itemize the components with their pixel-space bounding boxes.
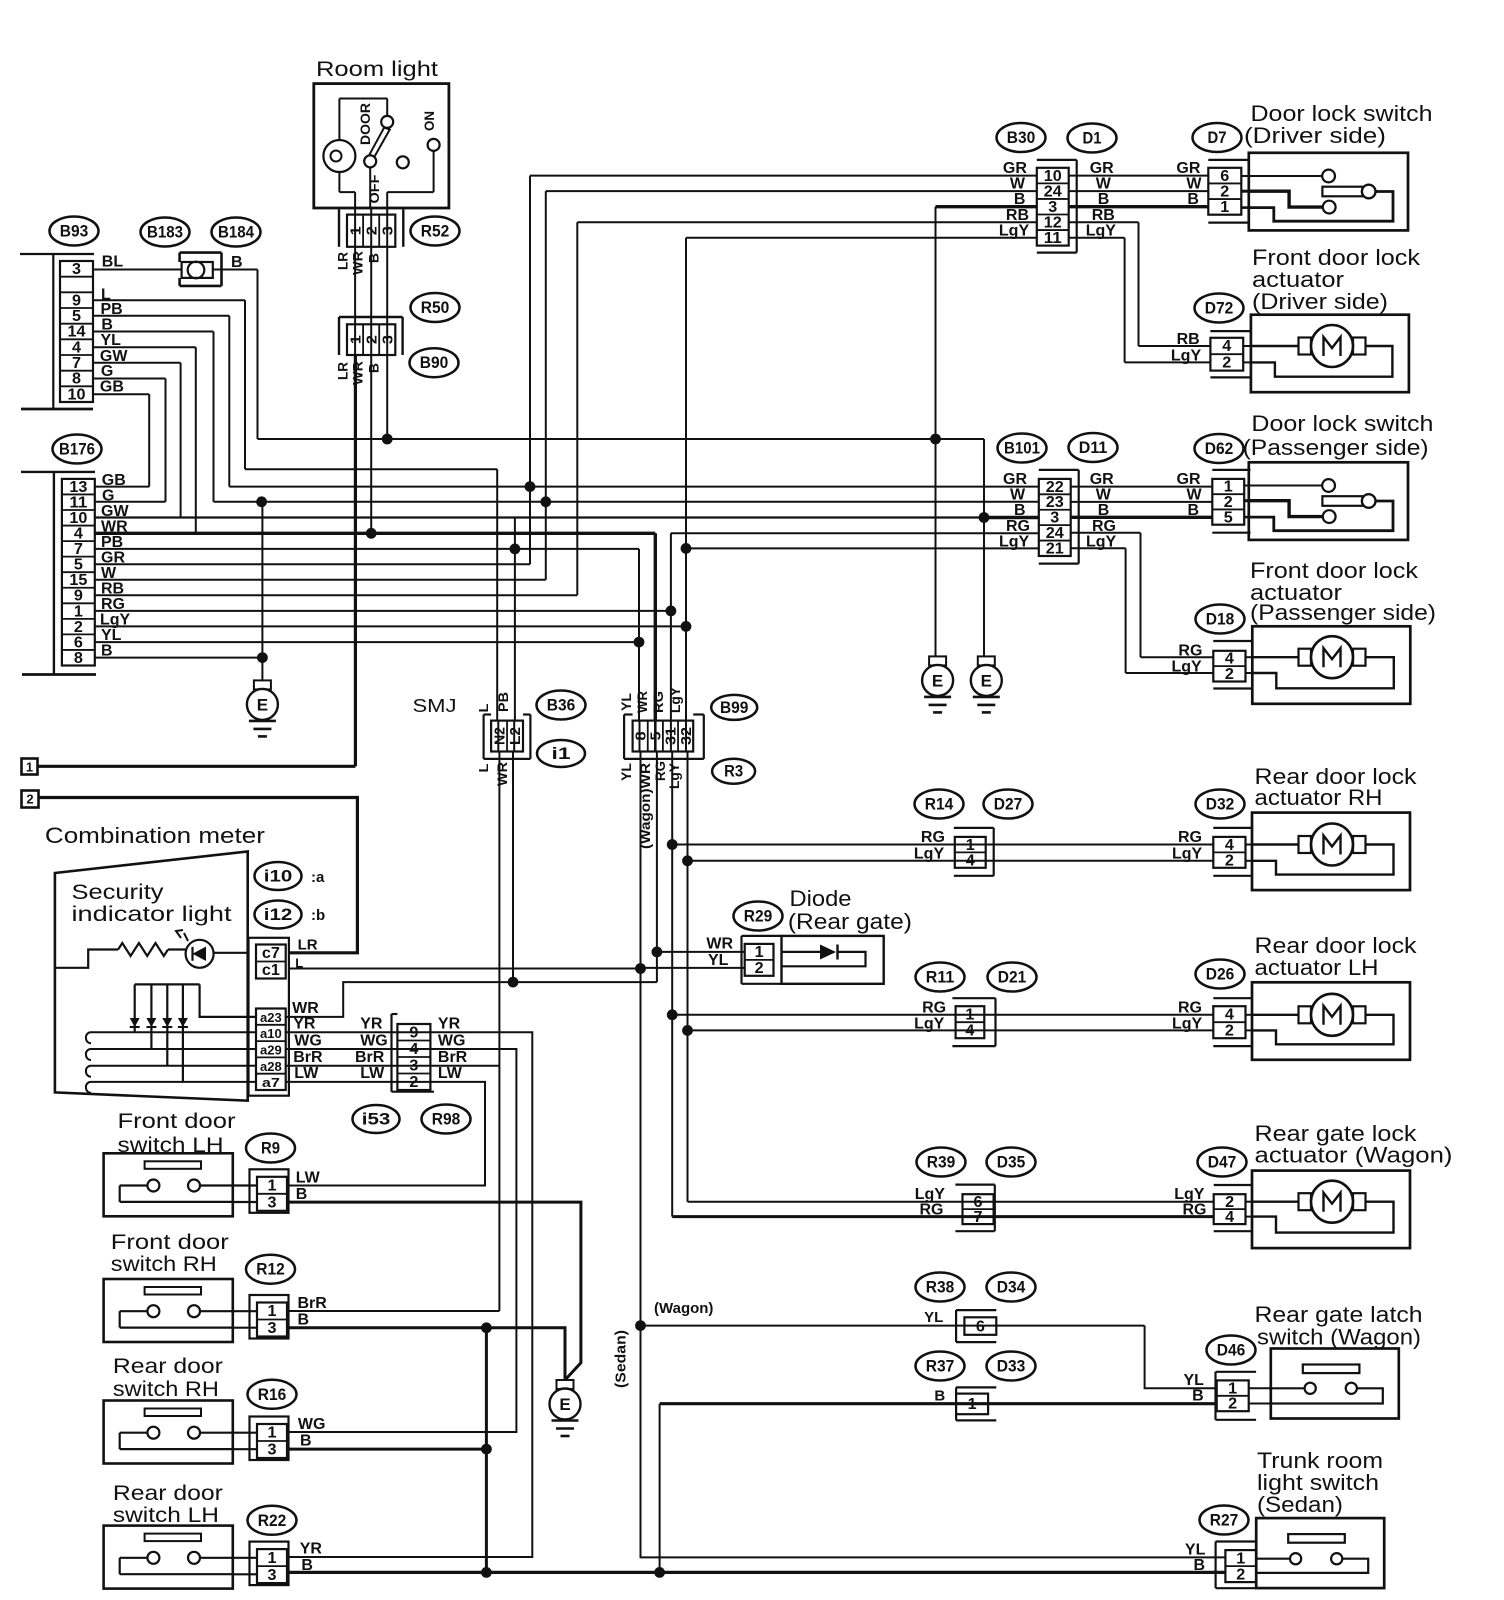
- connector block D7: [1208, 168, 1241, 216]
- svg-text:LW: LW: [438, 1065, 463, 1082]
- svg-text:2: 2: [755, 960, 764, 977]
- svg-text:D46: D46: [1217, 1342, 1246, 1360]
- wire D72 to actuator: [1243, 345, 1251, 347]
- svg-text:R14: R14: [925, 796, 954, 814]
- svg-text:2: 2: [1236, 1566, 1245, 1583]
- connector D26 housing: [1213, 998, 1252, 1046]
- connector R50 housing: [339, 317, 403, 355]
- connector block R14/D27: [955, 837, 986, 869]
- wire B row thick to B101: [984, 516, 1039, 519]
- connector block B30/D1: [1037, 168, 1069, 247]
- svg-text:R38: R38: [926, 1279, 955, 1297]
- connector R11/D21 housing: [952, 998, 995, 1046]
- wire labels RG LgY at R11: [914, 999, 946, 1032]
- wire D18 to actuator: [1246, 656, 1253, 658]
- svg-text:R12: R12: [256, 1261, 285, 1279]
- svg-text:LgY: LgY: [667, 686, 683, 713]
- svg-text:R3: R3: [724, 763, 743, 781]
- svg-text:E: E: [981, 671, 992, 690]
- wire BrR from i53 to riser: [430, 1065, 499, 1067]
- wire D11 to D62 GR: [1071, 486, 1213, 488]
- connector block R12 pins: [257, 1303, 287, 1338]
- connector label oval R14: [915, 790, 964, 819]
- svg-text:D18: D18: [1206, 611, 1235, 629]
- wire from box 1 to LR riser: [38, 765, 356, 768]
- svg-text:GR: GR: [1177, 471, 1201, 488]
- wire labels LgY RG at D47: [1174, 1186, 1206, 1218]
- svg-text:4: 4: [1225, 1006, 1234, 1023]
- connector R38/D34 housing: [956, 1310, 996, 1342]
- svg-text:YR: YR: [293, 1016, 316, 1033]
- connector label oval D46: [1207, 1336, 1256, 1365]
- wire riser x257.5 B: [257, 270, 259, 440]
- wire W row y579.8: [95, 579, 546, 581]
- wire B down to B row: [386, 355, 388, 439]
- text Rear door switch LH: [113, 1482, 223, 1527]
- wire labels below B99: [618, 761, 682, 849]
- wire RG row B101 y533.3: [671, 532, 1039, 534]
- svg-text:1: 1: [268, 1550, 277, 1567]
- svg-text:RG: RG: [1006, 518, 1030, 535]
- svg-text:L: L: [476, 703, 491, 712]
- svg-text:9: 9: [72, 292, 81, 309]
- wire B93 pin 4 YL: [93, 346, 196, 348]
- svg-text:G: G: [101, 363, 113, 380]
- junction dot YL riser: [634, 637, 645, 648]
- svg-text:D7: D7: [1208, 129, 1227, 147]
- text Front door lock actuator driver: [1252, 245, 1421, 314]
- connector label oval D35: [987, 1148, 1036, 1177]
- connector block D32: [1213, 837, 1245, 869]
- svg-text:OFF: OFF: [366, 174, 382, 203]
- connector label oval R11: [916, 963, 965, 992]
- wire LW from i53 to R9: [287, 1082, 485, 1186]
- svg-text:RG: RG: [1178, 829, 1202, 846]
- svg-text:R22: R22: [258, 1512, 287, 1530]
- connector R39/D35 housing: [955, 1185, 994, 1232]
- svg-text:R52: R52: [421, 223, 450, 241]
- connector block c7c1: [256, 945, 286, 980]
- wire PB row y548.9: [95, 548, 639, 550]
- wire B93 pin 5 PB: [93, 315, 229, 317]
- wire R52 to R50: [355, 247, 387, 324]
- svg-text:D26: D26: [1206, 966, 1235, 984]
- wire R9 B to E ground: [287, 1202, 581, 1380]
- wire labels BrR B at R12: [298, 1295, 328, 1329]
- wire riser x213.5: [213, 332, 215, 502]
- svg-text:R37: R37: [926, 1358, 955, 1376]
- wire B row R37 to D46 thick: [660, 1402, 1217, 1405]
- wire LgY into D18: [1126, 672, 1214, 674]
- svg-text:YR: YR: [300, 1541, 323, 1558]
- junction dot B row x387: [382, 434, 393, 445]
- svg-text:7: 7: [74, 541, 83, 558]
- connector D18 housing: [1213, 641, 1252, 689]
- svg-text:1: 1: [26, 760, 33, 775]
- svg-text:YL: YL: [618, 763, 634, 781]
- component B183/B184 joint: [180, 253, 222, 286]
- svg-text:B184: B184: [218, 224, 255, 242]
- wire labels LW B at R9: [296, 1170, 321, 1204]
- svg-text:Front door: Front door: [118, 1110, 236, 1133]
- connector block R38/D34: [964, 1317, 996, 1335]
- svg-text:(Sedan): (Sedan): [613, 1330, 630, 1388]
- wire through R50 cells: [355, 324, 387, 355]
- svg-text:LW: LW: [360, 1065, 385, 1082]
- svg-text:i12: i12: [264, 906, 293, 924]
- svg-text:BL: BL: [102, 254, 124, 271]
- wire LgY row R14 to D32: [688, 860, 1214, 862]
- svg-text:5: 5: [72, 308, 81, 325]
- connector block R9 pins: [257, 1177, 287, 1212]
- svg-text:3: 3: [1048, 199, 1057, 216]
- junction dot SMJ riser on PB row: [510, 544, 521, 555]
- svg-text:B99: B99: [720, 699, 749, 717]
- wire a29 WG to i53: [286, 1048, 398, 1050]
- wire riser x165.5: [165, 379, 167, 502]
- wire LR down to junction 1: [354, 355, 357, 766]
- svg-text:D32: D32: [1206, 796, 1235, 814]
- svg-text:E: E: [559, 1395, 570, 1414]
- wire labels WR YL at R29: [706, 936, 733, 969]
- connector D47 housing: [1214, 1185, 1252, 1231]
- svg-text:YL: YL: [924, 1309, 943, 1326]
- junction dot B run x935.5: [930, 434, 941, 445]
- wire R16 B row: [287, 1448, 486, 1451]
- switch detail box rear gate latch switch: [1271, 1349, 1399, 1419]
- svg-text:R27: R27: [1210, 1512, 1239, 1530]
- svg-text:E: E: [257, 695, 268, 714]
- wire riser LgY to D72: [1124, 238, 1126, 363]
- connector label oval i1: [537, 740, 585, 767]
- svg-text:B36: B36: [547, 697, 576, 715]
- connector block D72: [1210, 338, 1243, 372]
- connector block R37/D33: [956, 1394, 988, 1415]
- svg-text:6: 6: [976, 1318, 985, 1335]
- svg-text:D21: D21: [998, 969, 1027, 987]
- connector label oval D27: [984, 790, 1033, 819]
- wire bracket B176 harness: [21, 471, 95, 473]
- wire D1 to D7 GR: [1069, 175, 1209, 177]
- connector block R22 pins: [257, 1549, 287, 1584]
- connector B101/D11 housing: [1039, 470, 1079, 564]
- wire through B99 cells: [640, 721, 687, 752]
- connector R37/D33 housing: [956, 1387, 996, 1420]
- wire SMJ N2 riser: [496, 469, 498, 720]
- svg-text:Security: Security: [72, 881, 165, 904]
- switch detail box trunk room light switch: [1256, 1518, 1384, 1588]
- connector label oval D32: [1196, 790, 1245, 819]
- svg-text:10: 10: [68, 386, 86, 403]
- wire RG riser into B99: [670, 533, 672, 720]
- wire stubs switch connectors: [233, 1186, 257, 1575]
- connector D32 housing: [1213, 828, 1252, 876]
- wire D1 LgY to riser: [1069, 237, 1125, 239]
- svg-text:1: 1: [74, 603, 83, 620]
- text Rear gate lock actuator Wagon: [1255, 1121, 1453, 1168]
- wire RG below B99: [671, 752, 673, 1217]
- component combination meter outline: [55, 851, 248, 1100]
- connector c7 c1 block: [249, 938, 289, 1096]
- svg-text:D33: D33: [997, 1358, 1026, 1376]
- svg-text:R29: R29: [744, 908, 773, 926]
- svg-text:10: 10: [1044, 168, 1062, 185]
- junction dot G row E riser: [256, 496, 267, 507]
- svg-text:1: 1: [268, 1178, 277, 1195]
- svg-text:WG: WG: [360, 1032, 388, 1049]
- svg-text:LgY: LgY: [999, 533, 1030, 550]
- wire labels RG LgY at D32: [1172, 829, 1203, 862]
- svg-text:R16: R16: [258, 1386, 287, 1404]
- wire through R52 cells: [355, 215, 387, 247]
- svg-text:RG: RG: [1178, 999, 1202, 1016]
- junction dot W riser: [540, 496, 551, 507]
- connector label oval D7: [1193, 123, 1242, 152]
- svg-text:L: L: [476, 763, 491, 772]
- ground symbol E: [971, 656, 1002, 712]
- svg-text:GR: GR: [1003, 471, 1027, 488]
- connector D72 housing: [1210, 331, 1251, 377]
- wire labels LR WR B below R52: [335, 251, 382, 275]
- wire riser x984 to B101 B: [983, 439, 985, 656]
- svg-text:R11: R11: [926, 969, 955, 987]
- wire meter coil rows: [86, 1032, 256, 1093]
- ground symbol E: [550, 1380, 581, 1436]
- wire RG row R39 to D47 thick: [672, 1215, 1213, 1218]
- wire WR down to WR row: [370, 355, 372, 533]
- connector label oval R9: [246, 1134, 295, 1163]
- svg-text:5: 5: [1224, 509, 1233, 526]
- wire D46 to box: [1249, 1387, 1271, 1389]
- wire W row to B30: [546, 190, 1037, 192]
- wire riser pin9 horizontal y469.3: [245, 468, 497, 470]
- svg-text:B: B: [1014, 502, 1026, 519]
- svg-text:4: 4: [1222, 338, 1231, 355]
- svg-text:PB: PB: [495, 692, 511, 712]
- wire RG into D18: [1141, 656, 1214, 658]
- svg-text:8: 8: [74, 650, 83, 667]
- svg-text:LR: LR: [335, 362, 351, 380]
- text Trunk room light switch Sedan: [1257, 1448, 1383, 1517]
- svg-text:1: 1: [755, 944, 764, 961]
- svg-text:6: 6: [74, 634, 83, 651]
- wire labels YR B at R22: [300, 1541, 323, 1575]
- text Rear door lock actuator RH: [1255, 764, 1418, 810]
- svg-text:LgY: LgY: [1172, 845, 1203, 862]
- svg-text:GR: GR: [1003, 160, 1027, 177]
- connector D46 housing: [1216, 1372, 1257, 1420]
- connector R22: [250, 1542, 289, 1586]
- node box 1: [22, 759, 38, 775]
- svg-text:(Wagon): (Wagon): [654, 1300, 713, 1317]
- svg-text:i10: i10: [264, 868, 293, 886]
- wire B93 pin labels: [100, 254, 128, 396]
- connector label oval B101: [998, 434, 1047, 463]
- wire riser GR x530: [529, 176, 531, 565]
- wire bracket B93 harness: [20, 253, 94, 255]
- connector block R11/D21: [956, 1006, 985, 1039]
- svg-text:12: 12: [1044, 214, 1062, 231]
- svg-text:BrR: BrR: [438, 1049, 468, 1066]
- svg-text:WG: WG: [298, 1416, 326, 1433]
- junction dot RG riser: [666, 606, 677, 617]
- svg-text:B: B: [231, 254, 243, 271]
- connector R16: [250, 1417, 289, 1461]
- svg-text:1: 1: [268, 1303, 277, 1320]
- wire RG row R14 to D32: [672, 844, 1213, 846]
- wire D11 to D62 W: [1071, 501, 1213, 503]
- wire labels YL B at R27: [1185, 1542, 1206, 1575]
- wire labels above B99: [618, 686, 683, 713]
- svg-text:W: W: [1186, 176, 1202, 193]
- svg-text:a7: a7: [262, 1075, 280, 1090]
- wire D62 to box W: [1244, 499, 1249, 502]
- connector label oval B93: [50, 217, 99, 246]
- wire through R14 cells: [955, 845, 986, 861]
- svg-text:BrR: BrR: [293, 1049, 323, 1066]
- svg-text:D34: D34: [997, 1279, 1026, 1297]
- wire labels left of B30: [999, 160, 1030, 240]
- wire riser x229.3: [228, 316, 230, 487]
- svg-text:c7: c7: [262, 945, 280, 962]
- wire GW/B row y517.5 to B101: [95, 516, 984, 518]
- svg-text:B93: B93: [60, 223, 89, 241]
- svg-text:W: W: [1010, 487, 1026, 504]
- wire from box 2 thick: [39, 798, 358, 953]
- connector label oval R3: [712, 759, 755, 784]
- svg-text:YL: YL: [1185, 1542, 1206, 1559]
- svg-text:Front door: Front door: [111, 1231, 229, 1254]
- svg-text:GR: GR: [1090, 160, 1114, 177]
- wire riser RG to D18: [1140, 533, 1142, 657]
- svg-text:1: 1: [1220, 199, 1229, 216]
- wire through B36 cells: [498, 721, 514, 752]
- ground symbol E: [922, 656, 953, 712]
- svg-text:GR: GR: [1176, 160, 1200, 177]
- svg-text:(Driver side): (Driver side): [1252, 289, 1388, 314]
- connector label oval B184: [212, 218, 261, 247]
- wire through i53 cells: [397, 1032, 430, 1082]
- svg-text:LW: LW: [296, 1170, 321, 1187]
- svg-text:8: 8: [72, 371, 81, 388]
- connector label oval B176: [53, 435, 102, 464]
- junction dot R12 B: [481, 1322, 492, 1333]
- svg-text:indicator light: indicator light: [72, 903, 232, 926]
- wire RB into D72: [1139, 345, 1211, 347]
- wire LgY into D72: [1125, 361, 1211, 363]
- wire D47 to actuator: [1246, 1201, 1253, 1203]
- wire D26 to actuator: [1246, 1014, 1253, 1016]
- connector label oval R39: [917, 1148, 966, 1177]
- text Security indicator light: [72, 881, 232, 926]
- connector R9: [250, 1169, 289, 1213]
- wire B run y439 from B183: [258, 438, 985, 440]
- connector R27 housing: [1216, 1542, 1257, 1589]
- svg-text:Rear door: Rear door: [113, 1355, 223, 1378]
- svg-text:switch LH: switch LH: [113, 1504, 219, 1527]
- wire GB row y486.6 left: [95, 486, 149, 488]
- wire labels right of D11: [1086, 471, 1117, 550]
- svg-text:switch RH: switch RH: [111, 1253, 217, 1276]
- junction dot R22 B riser: [481, 1567, 492, 1578]
- junction dot B row ground riser: [257, 652, 268, 663]
- wire riser RB x577.3: [576, 222, 578, 595]
- connector block D26: [1213, 1006, 1245, 1039]
- connector label oval D1: [1068, 124, 1117, 153]
- wire WR below B99: [656, 752, 658, 983]
- wire GR row to B30: [530, 175, 1037, 177]
- svg-text:W: W: [1096, 176, 1112, 193]
- svg-text:c1: c1: [262, 962, 280, 979]
- wire riser x180.6: [180, 363, 182, 518]
- connector label oval B99: [711, 695, 757, 720]
- svg-text:2: 2: [74, 619, 83, 636]
- wire labels WR YR WG BrR LW left: [292, 1000, 323, 1082]
- connector block R29: [745, 944, 774, 977]
- wire D7 to box B: [1241, 206, 1249, 209]
- svg-text:i53: i53: [362, 1111, 391, 1129]
- wire WR into R29: [657, 951, 745, 953]
- connector block R16 pins: [257, 1424, 287, 1459]
- svg-text:2: 2: [1225, 1022, 1234, 1039]
- wire labels RB LgY at D72: [1171, 331, 1202, 365]
- svg-text:1: 1: [1236, 1550, 1245, 1567]
- wire room light to R52 pins: [355, 208, 387, 215]
- wire RG row R11 to D26: [672, 1014, 1213, 1016]
- svg-text:W: W: [1010, 176, 1026, 193]
- svg-text:WR: WR: [350, 361, 366, 385]
- wire a23 WR route: [286, 982, 657, 1017]
- component diode rear gate: [782, 936, 884, 984]
- wire ground riser x262.4: [261, 502, 263, 681]
- connector label oval B36: [537, 691, 586, 720]
- svg-text:WG: WG: [294, 1032, 322, 1049]
- svg-text:10: 10: [69, 510, 87, 527]
- svg-text:actuator (Wagon): actuator (Wagon): [1255, 1143, 1453, 1168]
- connector label oval D18: [1196, 605, 1245, 634]
- svg-text:2: 2: [1228, 1396, 1237, 1413]
- junction dot R37 riser: [654, 1567, 665, 1578]
- wire YL below B99: [640, 752, 642, 1326]
- svg-text:WG: WG: [438, 1032, 466, 1049]
- connector label oval R29: [734, 902, 783, 931]
- text Front door switch LH: [118, 1110, 236, 1157]
- wire riser W x545.8: [545, 191, 547, 580]
- wire R37 B riser: [659, 1404, 661, 1573]
- svg-text:9: 9: [74, 588, 83, 605]
- wire labels RG LgY at D18: [1172, 643, 1203, 676]
- svg-text:3: 3: [268, 1195, 277, 1212]
- svg-text:actuator RH: actuator RH: [1255, 785, 1383, 810]
- junction dot WR row x371: [366, 528, 377, 539]
- svg-text:R39: R39: [927, 1154, 956, 1172]
- wire D62 to box B: [1244, 516, 1249, 519]
- junction dot GR riser: [525, 481, 536, 492]
- connector label oval D72: [1195, 294, 1244, 323]
- wire BrR riser to R12: [287, 1310, 499, 1312]
- wire LgY below B99: [687, 752, 689, 1202]
- connector block D46: [1217, 1380, 1249, 1412]
- wire a28 BrR to i53: [286, 1065, 398, 1067]
- connector label oval D47: [1198, 1148, 1247, 1177]
- wire GR row y486.6 right to B101: [229, 486, 1039, 488]
- svg-text:3: 3: [72, 261, 81, 278]
- wire R12 B row: [287, 1328, 565, 1380]
- wire a10 YR to i53: [286, 1031, 398, 1033]
- wire labels RG LgY at D26: [1172, 999, 1203, 1032]
- junction dot LgY R14: [682, 855, 693, 866]
- wire YL row y642.1: [95, 641, 639, 643]
